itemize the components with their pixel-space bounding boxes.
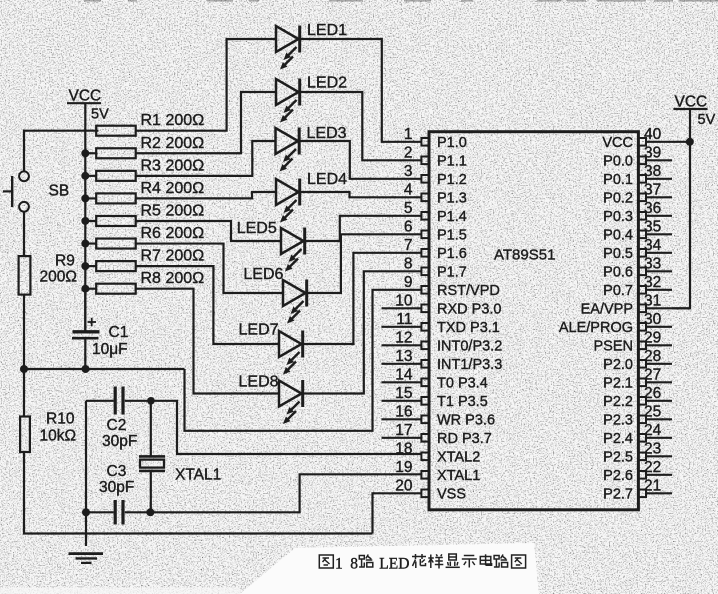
capacitor C2 30pF: [86, 387, 151, 451]
wire - SB bottom to R9: [23, 212, 25, 256]
svg-text:SB: SB: [49, 183, 70, 200]
svg-text:LED1: LED1: [307, 22, 347, 39]
svg-text:200Ω: 200Ω: [166, 248, 205, 265]
node - junction dot C3 left: [82, 508, 90, 516]
wire - LED2 cathode to pin 2: [301, 92, 422, 160]
svg-text:8: 8: [350, 556, 358, 573]
pin 12 INT0/P3.2 (left): [382, 329, 503, 354]
svg-text:P2.3: P2.3: [603, 413, 633, 429]
svg-text:LED6: LED6: [243, 266, 283, 283]
LED8: [239, 373, 303, 424]
pin 22 P2.6 (right): [603, 459, 672, 484]
svg-text:200Ω: 200Ω: [166, 180, 205, 197]
svg-text:LED5: LED5: [237, 220, 277, 237]
svg-text:21: 21: [644, 477, 661, 494]
svg-text:27: 27: [644, 366, 661, 383]
svg-text:P1.7: P1.7: [437, 265, 467, 281]
wire - R3 to LED3 anode: [136, 141, 276, 176]
svg-text:1: 1: [404, 126, 413, 143]
svg-text:30: 30: [644, 311, 662, 328]
svg-text:200Ω: 200Ω: [166, 270, 205, 287]
node - junction dot C1 bottom: [82, 365, 90, 373]
pin 35 P0.4 (right): [603, 218, 672, 243]
svg-text:LED: LED: [379, 556, 409, 573]
svg-text:P0.4: P0.4: [603, 228, 633, 244]
pin 16 WR P3.6 (left): [382, 403, 496, 428]
pin 40 VCC (right): [602, 126, 690, 151]
LED6: [243, 266, 306, 324]
svg-text:R5: R5: [141, 202, 162, 219]
wire - oscillator loop left rail: [85, 401, 87, 546]
resistor R3 200Ω: [83, 157, 204, 181]
wire - R7 to LED7 anode: [136, 266, 279, 344]
pin 32 P0.7 (right): [603, 274, 672, 299]
wire - crystal top node to XTAL2 pin 18: [151, 401, 422, 454]
svg-text:P1.4: P1.4: [437, 209, 467, 225]
wire - R2 to LED2 anode: [136, 92, 276, 153]
svg-text:19: 19: [395, 459, 412, 476]
pin 6 P1.5 (left): [404, 218, 467, 243]
svg-text:200Ω: 200Ω: [166, 157, 205, 174]
pin 29 PSEN (right): [594, 329, 673, 354]
node - junction dot on VCC rail at R4: [81, 194, 89, 202]
svg-text:11: 11: [396, 311, 412, 328]
resistor R4 200Ω: [83, 180, 204, 204]
svg-text:R2: R2: [141, 135, 162, 152]
crystal XTAL1 (quartz): [139, 401, 221, 513]
svg-text:RST/VPD: RST/VPD: [437, 283, 500, 299]
wire - RST node down to R10: [23, 369, 25, 417]
pin 17 RD P3.7 (left): [382, 422, 492, 447]
wire - R5 to LED5 anode: [136, 221, 281, 241]
svg-text:20: 20: [395, 477, 413, 494]
svg-text:14: 14: [395, 366, 413, 383]
svg-text:9: 9: [404, 274, 413, 291]
svg-text:INT0/P3.2: INT0/P3.2: [437, 339, 502, 355]
pin 5 P1.4 (left): [404, 200, 467, 225]
svg-text:LED7: LED7: [239, 322, 279, 339]
svg-text:R7: R7: [141, 248, 162, 265]
svg-text:200Ω: 200Ω: [166, 135, 205, 152]
svg-text:WR P3.6: WR P3.6: [437, 413, 495, 429]
svg-text:P0.7: P0.7: [603, 283, 633, 299]
wire - R6 to LED6 anode: [136, 244, 283, 293]
svg-text:LED3: LED3: [307, 125, 347, 142]
svg-text:P2.1: P2.1: [603, 376, 633, 392]
wire - VSS/ground run to pin 20: [373, 493, 422, 533]
svg-text:ALE/PROG: ALE/PROG: [559, 320, 633, 336]
svg-text:30pF: 30pF: [99, 479, 134, 496]
svg-text:3: 3: [404, 163, 413, 180]
caption text 图1 8路 LED 花样显示电路图: [319, 554, 525, 573]
svg-text:R9: R9: [55, 253, 75, 270]
svg-text:200Ω: 200Ω: [40, 269, 77, 286]
svg-text:R8: R8: [141, 270, 162, 287]
svg-text:2: 2: [404, 144, 413, 161]
pin 30 ALE/PROG (right): [559, 311, 672, 336]
capacitor C1 10µF electrolytic: [72, 289, 128, 366]
pin 36 P0.3 (right): [603, 200, 672, 225]
wire - RST/VPD pin 9 route: [185, 290, 422, 431]
svg-text:XTAL2: XTAL2: [437, 450, 480, 466]
LED7: [239, 322, 303, 375]
svg-text:25: 25: [644, 403, 661, 420]
wire - R9 bottom to RST node: [23, 295, 25, 369]
svg-text:200Ω: 200Ω: [166, 202, 205, 219]
svg-text:30pF: 30pF: [102, 433, 137, 450]
pin 3 P1.2 (left): [404, 163, 467, 188]
pin 9 RST/VPD (left): [404, 274, 500, 299]
svg-text:T1 P3.5: T1 P3.5: [437, 394, 488, 410]
op-amp U1 AT89S51 body (IC outline): [429, 132, 638, 510]
pin 24 P2.4 (right): [603, 422, 672, 447]
wire - right VCC rail down to EA/VPP pin 31: [672, 109, 690, 308]
svg-text:P2.2: P2.2: [603, 394, 633, 410]
svg-text:AT89S51: AT89S51: [494, 247, 555, 264]
svg-text:36: 36: [644, 200, 661, 217]
svg-text:LED4: LED4: [307, 171, 347, 188]
svg-text:5: 5: [404, 200, 413, 217]
wire - R10 bottom to ground/VSS corner: [24, 452, 373, 534]
wire - RST node horizontal (to C1 bottom): [24, 368, 185, 370]
svg-text:XTAL1: XTAL1: [437, 468, 480, 484]
pin 34 P0.5 (right): [603, 237, 672, 262]
svg-text:34: 34: [644, 237, 662, 254]
svg-text:R6: R6: [141, 225, 162, 242]
svg-text:P0.2: P0.2: [603, 191, 633, 207]
pin 27 P2.1 (right): [603, 366, 672, 391]
node - junction dot on VCC rail at R8: [81, 285, 89, 293]
pin 8 P1.7 (left): [404, 255, 467, 280]
pin 7 P1.6 (left): [404, 237, 467, 262]
ground symbol: [69, 554, 104, 563]
wire - left VCC rail from symbol down to C1: [84, 103, 86, 330]
wire - crystal bottom node to XTAL1 pin 19: [150, 474, 421, 512]
svg-text:200Ω: 200Ω: [166, 225, 205, 242]
svg-text:XTAL1: XTAL1: [175, 467, 221, 484]
pin 19 XTAL1 (left): [395, 459, 480, 484]
capacitor C3 30pF: [86, 463, 150, 525]
svg-text:33: 33: [644, 255, 661, 272]
svg-text:26: 26: [644, 385, 661, 402]
svg-text:P0.6: P0.6: [603, 265, 633, 281]
wire - VCC rail / R1 row across to push button SB: [23, 130, 99, 132]
pin 14 T0 P3.4 (left): [382, 366, 488, 391]
svg-text:P2.4: P2.4: [603, 431, 633, 447]
pin 18 XTAL2 (left): [395, 440, 480, 465]
pin 38 P0.1 (right): [603, 163, 672, 188]
resistor R8 200Ω: [83, 270, 204, 294]
svg-text:13: 13: [395, 348, 412, 365]
svg-text:EA/VPP: EA/VPP: [581, 302, 633, 318]
resistor R9 200Ω (vertical box): [19, 253, 77, 295]
wire - LED8 cathode to pin 8: [304, 271, 422, 393]
svg-text:P1.3: P1.3: [437, 191, 467, 207]
LED3: [276, 125, 347, 172]
svg-text:P0.0: P0.0: [603, 154, 633, 170]
pin 23 P2.5 (right): [603, 440, 672, 465]
node - junction dot on VCC rail at R5: [81, 217, 89, 225]
wire - LED6 cathode to pin 6: [308, 234, 422, 293]
svg-text:C2: C2: [107, 417, 127, 434]
pin 28 P2.0 (right): [603, 348, 672, 373]
svg-text:P2.7: P2.7: [603, 487, 633, 503]
svg-text:15: 15: [395, 385, 412, 402]
svg-text:28: 28: [644, 348, 661, 365]
resistor R5 200Ω: [83, 202, 204, 226]
LED4: [276, 171, 347, 222]
svg-text:VCC: VCC: [602, 135, 633, 151]
pin 4 P1.3 (left): [404, 181, 467, 206]
pin 10 RXD P3.0 (left): [382, 292, 502, 317]
node - junction dot on VCC rail at R2: [81, 149, 89, 157]
wire - R4 to LED4 anode: [136, 192, 276, 198]
pin 25 P2.3 (right): [603, 403, 672, 428]
svg-text:5V: 5V: [91, 107, 109, 123]
svg-text:T0 P3.4: T0 P3.4: [437, 376, 488, 392]
svg-text:P2.5: P2.5: [603, 450, 633, 466]
wire - SB top lead: [23, 130, 25, 172]
pin 15 T1 P3.5 (left): [382, 385, 488, 410]
svg-text:16: 16: [395, 403, 412, 420]
svg-text:10: 10: [395, 292, 413, 309]
wire - R1 to LED1 anode: [136, 39, 276, 131]
node - junction dot on VCC rail at R3: [81, 172, 89, 180]
svg-text:RD P3.7: RD P3.7: [437, 431, 492, 447]
svg-text:P1.2: P1.2: [437, 172, 467, 188]
svg-text:C3: C3: [107, 463, 127, 480]
svg-text:32: 32: [644, 274, 661, 291]
node - junction dot on VCC rail at R7: [81, 262, 89, 270]
svg-text:8: 8: [404, 255, 413, 272]
svg-text:5V: 5V: [698, 112, 716, 128]
pin 11 TXD P3.1 (left): [382, 311, 500, 336]
svg-text:TXD P3.1: TXD P3.1: [437, 320, 500, 336]
svg-text:P1.0: P1.0: [437, 135, 467, 151]
VCC power symbol (right) with 5V label: [674, 94, 716, 129]
wire - LED7 cathode to pin 7: [304, 253, 422, 344]
svg-text:23: 23: [644, 440, 661, 457]
svg-text:P1.1: P1.1: [437, 154, 467, 170]
svg-text:22: 22: [644, 459, 661, 476]
svg-text:P0.3: P0.3: [603, 209, 633, 225]
svg-text:P0.5: P0.5: [603, 246, 633, 262]
pin 31 EA/VPP (right): [581, 292, 690, 317]
svg-text:C1: C1: [109, 324, 129, 341]
svg-text:12: 12: [395, 329, 412, 346]
scan edge artifacts (top): [84, 0, 718, 2]
svg-text:RXD P3.0: RXD P3.0: [437, 302, 501, 318]
wire - LED1 cathode to pin 1: [301, 39, 422, 142]
svg-text:P2.6: P2.6: [603, 468, 633, 484]
svg-text:37: 37: [644, 181, 661, 198]
pin 21 P2.7 (right): [603, 477, 672, 502]
svg-text:7: 7: [404, 237, 413, 254]
node - junction dot crystal bottom: [146, 508, 154, 516]
LED1: [276, 22, 347, 69]
push-button SB: [3, 171, 69, 211]
svg-text:29: 29: [644, 329, 661, 346]
resistor R6 200Ω: [83, 225, 204, 249]
pin 2 P1.1 (left): [404, 144, 467, 169]
svg-text:31: 31: [644, 292, 661, 309]
svg-text:LED8: LED8: [239, 373, 279, 390]
pin 1 P1.0 (left): [404, 126, 467, 151]
svg-text:VSS: VSS: [437, 487, 466, 503]
resistor R10 10kΩ (vertical box): [20, 411, 76, 453]
resistor R2 200Ω: [83, 135, 204, 159]
svg-text:R1: R1: [141, 112, 162, 129]
svg-text:PSEN: PSEN: [594, 339, 634, 355]
wire - LED4 cathode to pin 4: [301, 192, 422, 197]
svg-text:200Ω: 200Ω: [166, 112, 205, 129]
svg-text:24: 24: [644, 422, 662, 439]
pin 37 P0.2 (right): [603, 181, 672, 206]
pin 39 P0.0 (right): [603, 144, 672, 169]
VCC power symbol (left) with 5V label: [67, 88, 109, 123]
svg-text:17: 17: [395, 422, 412, 439]
pin 20 VSS (left): [395, 477, 466, 502]
svg-text:R3: R3: [141, 157, 162, 174]
svg-text:40: 40: [644, 126, 662, 143]
svg-text:P1.5: P1.5: [437, 228, 467, 244]
wire - LED5 cathode to pin 5: [306, 216, 422, 241]
caption white band: [0, 543, 539, 594]
pin 33 P0.6 (right): [603, 255, 672, 280]
svg-text:18: 18: [395, 440, 412, 457]
node - junction dot VCC pin 40: [686, 138, 694, 146]
pin 13 INT1/P3.3 (left): [382, 348, 503, 373]
svg-text:P1.6: P1.6: [437, 246, 467, 262]
svg-text:10μF: 10μF: [92, 341, 128, 358]
svg-text:R4: R4: [141, 180, 162, 197]
wire - R8 to LED8 anode: [136, 289, 279, 394]
svg-text:39: 39: [644, 144, 661, 161]
pin 26 P2.2 (right): [603, 385, 672, 410]
svg-text:6: 6: [404, 218, 413, 235]
svg-text:INT1/P3.3: INT1/P3.3: [437, 357, 502, 373]
svg-text:P2.0: P2.0: [603, 357, 633, 373]
LED2: [276, 74, 347, 122]
wire - LED3 cathode to pin 3: [301, 141, 422, 179]
svg-text:10kΩ: 10kΩ: [40, 428, 77, 445]
svg-text:LED2: LED2: [307, 74, 347, 91]
LED5: [237, 220, 305, 272]
svg-text:P0.1: P0.1: [603, 172, 633, 188]
svg-text:35: 35: [644, 218, 661, 235]
svg-text:1: 1: [335, 556, 343, 573]
svg-text:38: 38: [644, 163, 661, 180]
svg-text:4: 4: [404, 181, 413, 198]
resistor R1 200Ω: [96, 112, 204, 136]
node - junction dot R9/R10/RST: [20, 365, 28, 373]
node - junction dot crystal top: [147, 397, 155, 405]
node - junction dot on VCC rail at R6: [81, 240, 89, 248]
svg-text:R10: R10: [46, 411, 75, 428]
resistor R7 200Ω: [83, 248, 204, 272]
svg-text:VCC: VCC: [69, 88, 102, 105]
